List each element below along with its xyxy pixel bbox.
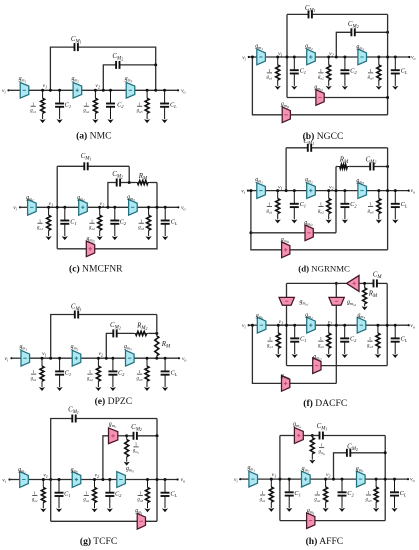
svg-text:1: 1 [85, 491, 87, 496]
svg-text:vi: vi [242, 55, 246, 62]
svg-text:(a) NMC: (a) NMC [76, 130, 111, 141]
svg-text:1: 1 [139, 491, 141, 496]
svg-text:1: 1 [320, 202, 322, 207]
svg-text:1: 1 [320, 68, 322, 73]
svg-text:1: 1 [268, 202, 270, 207]
svg-text:v2: v2 [98, 351, 102, 358]
svg-text:vo: vo [182, 356, 186, 363]
svg-text:1: 1 [39, 218, 41, 223]
svg-text:1: 1 [320, 442, 322, 447]
svg-text:1: 1 [135, 442, 137, 447]
svg-text:go1: go1 [266, 75, 272, 81]
svg-text:v1: v1 [279, 319, 283, 326]
svg-text:go1: go1 [31, 376, 37, 382]
svg-text:vi: vi [241, 188, 245, 195]
svg-text:1: 1 [369, 336, 371, 341]
svg-text:go2: go2 [318, 343, 324, 349]
svg-text:v1: v1 [278, 51, 282, 58]
svg-text:v2: v2 [328, 319, 332, 326]
svg-text:go2: go2 [83, 498, 89, 504]
svg-text:v1: v1 [43, 83, 47, 90]
svg-text:1: 1 [32, 369, 34, 374]
svg-text:vo: vo [181, 205, 185, 212]
svg-text:v1: v1 [42, 351, 46, 358]
svg-text:1: 1 [367, 490, 369, 495]
svg-text:vo: vo [411, 188, 415, 195]
svg-text:(d) NGRNMC: (d) NGRNMC [298, 264, 350, 274]
svg-text:go3: go3 [137, 376, 143, 382]
svg-text:vi: vi [234, 477, 238, 484]
svg-text:vi: vi [13, 205, 17, 212]
svg-text:go2: go2 [318, 75, 324, 81]
svg-text:go3: go3 [368, 75, 374, 81]
svg-text:(b) NGCC: (b) NGCC [303, 131, 344, 142]
svg-text:1: 1 [85, 101, 87, 106]
svg-text:v2: v2 [95, 83, 99, 90]
svg-text:1: 1 [89, 369, 91, 374]
svg-text:go3: go3 [138, 226, 144, 232]
svg-text:go1: go1 [32, 498, 38, 504]
svg-text:vi: vi [5, 356, 9, 363]
svg-text:1: 1 [140, 218, 142, 223]
svg-text:vi: vi [242, 323, 246, 330]
svg-text:go1: go1 [37, 226, 43, 232]
svg-text:1: 1 [320, 336, 322, 341]
svg-text:vo: vo [181, 477, 185, 484]
svg-text:go2: go2 [318, 209, 324, 215]
svg-text:go1: go1 [267, 343, 273, 349]
svg-text:v2: v2 [95, 472, 99, 479]
svg-text:(f) DACFC: (f) DACFC [303, 398, 347, 409]
svg-text:v1: v1 [49, 201, 53, 208]
svg-text:v2: v2 [100, 201, 104, 208]
svg-text:(h) AFFC: (h) AFFC [306, 536, 344, 547]
svg-text:go1: go1 [266, 209, 272, 215]
svg-text:1: 1 [32, 101, 34, 106]
svg-text:(c) NMCFNR: (c) NMCFNR [69, 264, 123, 275]
svg-text:v2: v2 [326, 472, 330, 479]
svg-text:v1: v1 [278, 185, 282, 192]
svg-text:v1: v1 [43, 472, 47, 479]
svg-text:vi: vi [2, 477, 6, 484]
svg-text:v2: v2 [329, 51, 333, 58]
svg-text:v1: v1 [272, 472, 276, 479]
svg-text:go3: go3 [368, 209, 374, 215]
svg-text:1: 1 [316, 490, 318, 495]
svg-text:go3: go3 [367, 343, 373, 349]
svg-text:(e) DPZC: (e) DPZC [95, 396, 133, 407]
svg-text:v2: v2 [329, 185, 333, 192]
svg-text:go3: go3 [137, 498, 143, 504]
svg-text:1: 1 [269, 336, 271, 341]
svg-text:go2: go2 [87, 376, 93, 382]
svg-text:go3: go3 [366, 497, 372, 503]
svg-text:vo: vo [411, 55, 415, 62]
svg-text:go3: go3 [137, 109, 143, 115]
svg-text:vo: vo [181, 88, 185, 95]
svg-text:go2: go2 [89, 226, 95, 232]
svg-text:vo: vo [410, 477, 414, 484]
svg-text:vi: vi [2, 88, 6, 95]
svg-text:1: 1 [369, 202, 371, 207]
svg-text:1: 1 [369, 68, 371, 73]
svg-text:1: 1 [91, 218, 93, 223]
svg-text:1: 1 [138, 101, 140, 106]
svg-text:(g) TCFC: (g) TCFC [80, 536, 117, 547]
svg-text:go1: go1 [260, 497, 266, 503]
svg-text:1: 1 [268, 68, 270, 73]
svg-text:1: 1 [34, 491, 36, 496]
svg-text:go2: go2 [314, 497, 320, 503]
svg-text:1: 1 [138, 369, 140, 374]
svg-text:1: 1 [261, 490, 263, 495]
svg-text:vo: vo [410, 323, 414, 330]
svg-text:go1: go1 [30, 109, 36, 115]
svg-text:go2: go2 [83, 109, 89, 115]
